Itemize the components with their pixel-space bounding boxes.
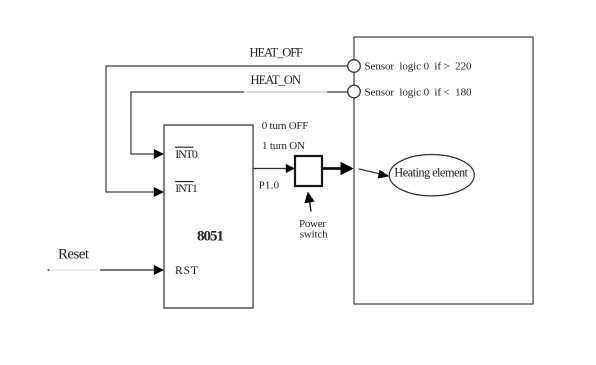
reset wire dot: [47, 269, 49, 271]
wire P1.0 to power switch: [254, 168, 286, 170]
svg-text:RST: RST: [175, 265, 198, 277]
svg-text:INT0: INT0: [175, 147, 198, 161]
svg-text:1 turn ON: 1 turn ON: [262, 140, 305, 152]
wire into INT1: [105, 191, 154, 193]
arrowhead INT0: [154, 149, 164, 159]
arrowhead at heating element: [378, 170, 390, 179]
reset wire dark segment: [100, 269, 155, 271]
arrowhead INT1: [154, 187, 164, 197]
svg-text:Heating element: Heating element: [394, 165, 468, 179]
svg-text:8051: 8051: [197, 228, 224, 244]
power switch pointer tail: [309, 200, 311, 212]
power switch pointer arrowhead: [304, 192, 314, 204]
oven enclosure box: [354, 37, 533, 304]
big arrowhead at enclosure: [341, 162, 354, 176]
thick wire power switch to enclosure: [323, 167, 341, 170]
power switch box: [295, 156, 322, 186]
svg-text:P1.0: P1.0: [259, 179, 280, 191]
svg-text:switch: switch: [300, 229, 328, 241]
svg-text:HEAT_OFF: HEAT_OFF: [250, 46, 304, 60]
wire HEAT_ON vertical drop: [130, 91, 132, 154]
wire HEAT_ON faint middle segment: [244, 91, 327, 93]
svg-text:Reset: Reset: [58, 247, 90, 263]
svg-text:Sensor logic 0 if < 180: Sensor logic 0 if < 180: [365, 87, 473, 99]
heating element ellipse: [389, 155, 474, 196]
arrowhead RST: [154, 265, 164, 275]
wire HEAT_OFF vertical drop: [105, 65, 107, 192]
arrowhead at power switch: [286, 164, 295, 173]
reset wire faint left segment: [49, 269, 102, 271]
overline INT0: [175, 146, 194, 148]
wire HEAT_ON horizontal: [131, 91, 244, 93]
svg-text:INT1: INT1: [175, 181, 198, 195]
wire to heating element: [359, 169, 382, 175]
svg-text:Sensor logic 0 if > 220: Sensor logic 0 if > 220: [365, 61, 473, 73]
controller box U1 (8051): [164, 125, 253, 308]
sensor node circle 1: [348, 60, 361, 73]
sensor node circle 2: [348, 85, 361, 98]
svg-text:0 turn OFF: 0 turn OFF: [262, 120, 309, 132]
overline INT1: [175, 181, 194, 183]
wire HEAT_OFF horizontal: [106, 65, 348, 67]
svg-text:HEAT_ON: HEAT_ON: [251, 73, 302, 87]
wire HEAT_ON into sensor circle: [327, 91, 348, 93]
wire into INT0: [130, 153, 154, 155]
